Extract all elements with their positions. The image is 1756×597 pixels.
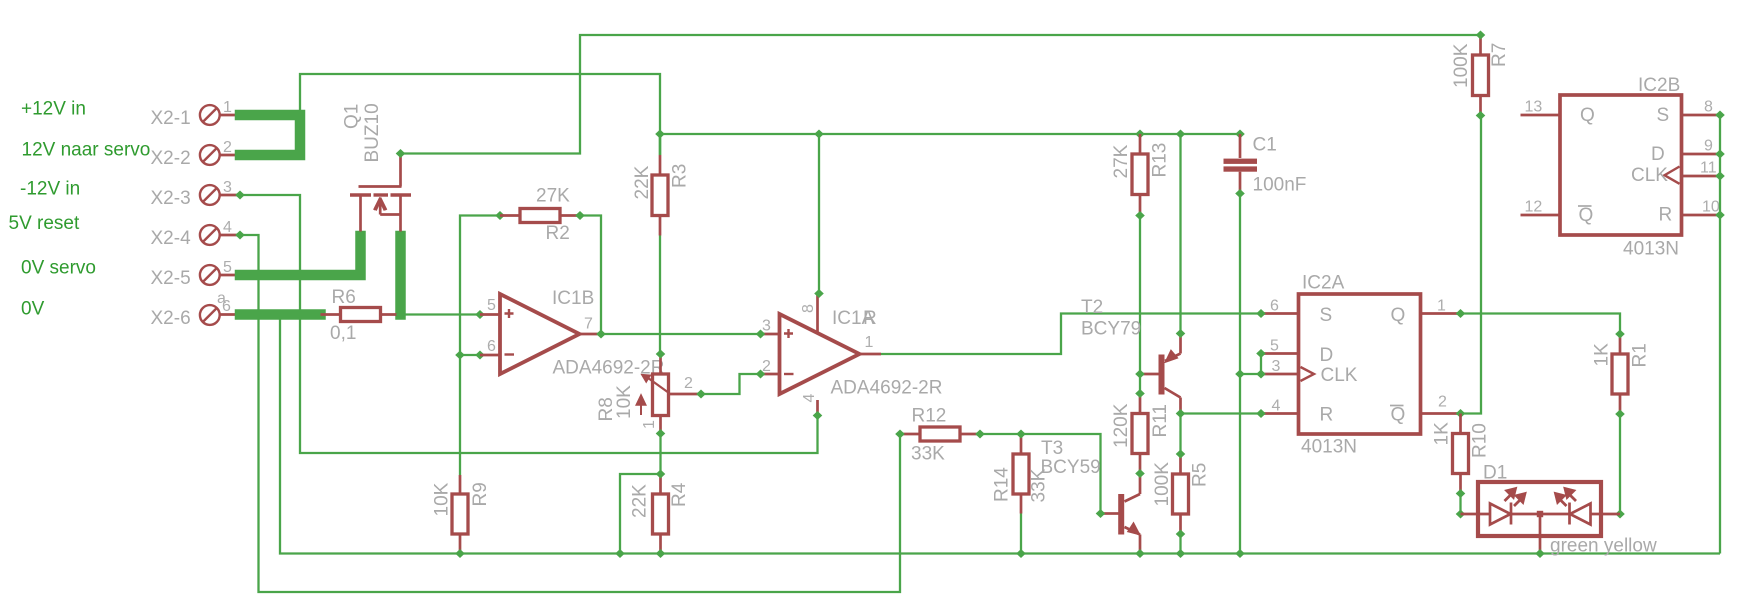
junction R4 bottom on 0V bus xyxy=(656,549,666,558)
svg-text:1: 1 xyxy=(865,334,874,351)
wire net +12V bus xyxy=(660,133,1240,135)
wire net R12 right to T3 base xyxy=(980,434,1104,514)
junction bypass on 0V bus xyxy=(615,549,625,558)
junction R5 top xyxy=(1176,450,1186,459)
svg-text:C1: C1 xyxy=(1253,135,1277,156)
wire net 0V bus from X2-6 down and along bottom xyxy=(280,310,1720,554)
svg-text:green yellow: green yellow xyxy=(1550,536,1657,557)
svg-text:BCY79: BCY79 xyxy=(1081,319,1141,340)
wire net IC1B out to IC1A pin3 xyxy=(601,333,761,335)
pin name Qbar xyxy=(1578,205,1593,226)
junction IC2A pin4 xyxy=(1256,409,1266,418)
svg-text:Q: Q xyxy=(1391,305,1406,326)
junction R2 right pin xyxy=(575,211,585,220)
svg-text:2: 2 xyxy=(223,139,232,156)
svg-text:3: 3 xyxy=(762,318,771,335)
svg-text:R: R xyxy=(1659,205,1673,226)
junction IC1A pin4 xyxy=(813,411,823,420)
svg-text:D1: D1 xyxy=(1483,463,1507,484)
resistor R12 xyxy=(900,427,980,441)
junction C1 net on 0V bus xyxy=(1235,549,1245,558)
resistor R14 xyxy=(1013,434,1029,514)
svg-text:R14: R14 xyxy=(992,467,1013,502)
transistor T2 (BCY79 PNP) xyxy=(1142,334,1181,414)
svg-text:13: 13 xyxy=(1525,99,1543,116)
svg-text:5: 5 xyxy=(223,259,232,276)
junction R11 top xyxy=(1135,389,1145,398)
svg-text:R13: R13 xyxy=(1150,143,1171,178)
svg-text:D: D xyxy=(1320,345,1334,366)
junction IC1B pin5 xyxy=(475,310,485,319)
resistor R6 xyxy=(321,308,401,322)
wire net R3 bottom to trimmer R8 top xyxy=(659,236,661,355)
terminal X2-3 xyxy=(200,185,240,205)
wire net IC2B unused pins tie to 0V xyxy=(1719,115,1721,554)
junction bus at IC1A pin8 branch xyxy=(814,130,824,139)
wire thick X2-5 to Q1 source xyxy=(240,236,361,275)
junction IC2B pin11 xyxy=(1715,172,1725,181)
svg-text:7: 7 xyxy=(584,316,593,333)
svg-text:3: 3 xyxy=(223,179,232,196)
svg-text:R5: R5 xyxy=(1190,463,1211,487)
svg-text:9: 9 xyxy=(1704,138,1713,155)
svg-text:R3: R3 xyxy=(670,164,691,188)
svg-text:ADA4692-2R: ADA4692-2R xyxy=(831,378,943,399)
svg-text:5: 5 xyxy=(1270,338,1279,355)
junction R7 bottom xyxy=(1476,111,1486,120)
svg-text:T2: T2 xyxy=(1081,297,1103,318)
svg-text:100nF: 100nF xyxy=(1253,175,1307,196)
resistor R10 xyxy=(1453,414,1469,494)
svg-text:0,1: 0,1 xyxy=(330,323,356,344)
wire net T2 emitter to +12V bus xyxy=(1179,134,1181,334)
svg-text:6: 6 xyxy=(487,338,496,355)
svg-text:R10: R10 xyxy=(1470,423,1491,458)
junction IC1A pin3 xyxy=(756,330,766,339)
svg-text:1K: 1K xyxy=(1432,422,1453,446)
svg-text:CLK: CLK xyxy=(1321,365,1358,386)
op-amp IC1B xyxy=(480,294,601,374)
svg-text:22K: 22K xyxy=(630,484,651,518)
svg-text:Q: Q xyxy=(1580,105,1595,126)
junction IC2A pin1 xyxy=(1456,309,1466,318)
junction X2-3 pin xyxy=(235,191,245,200)
wire net Q1 gate to R7 top xyxy=(401,35,1481,154)
junction IC2B pin9 xyxy=(1715,150,1725,159)
terminal X2-2 xyxy=(200,145,238,165)
svg-text:R: R xyxy=(1320,405,1334,426)
svg-text:12: 12 xyxy=(1525,199,1543,216)
terminal X2-5 xyxy=(200,265,238,285)
svg-text:R11: R11 xyxy=(1150,404,1171,437)
junction D1 common on 0V bus xyxy=(1535,549,1545,558)
svg-text:Q1: Q1 xyxy=(342,104,363,129)
junction pin6 pin xyxy=(475,351,485,360)
trimmer R8 xyxy=(637,354,701,434)
wire net IC1B pin6 stub xyxy=(460,354,480,356)
svg-text:100K: 100K xyxy=(1152,462,1173,507)
junction R9 bottom on 0V bus xyxy=(455,549,465,558)
svg-text:Q: Q xyxy=(1579,205,1594,226)
svg-text:X2-6: X2-6 xyxy=(151,308,191,329)
junction T3 base xyxy=(1096,509,1106,518)
svg-text:X2-5: X2-5 xyxy=(151,268,191,289)
wire net R13 bottom to T2 base and R11 xyxy=(1139,216,1141,394)
transistor T3 (BCY59 NPN) xyxy=(1103,474,1140,554)
svg-text:X2-1: X2-1 xyxy=(151,108,191,129)
terminal X2-4 xyxy=(200,225,240,245)
svg-text:1: 1 xyxy=(641,420,658,429)
resistor R4 xyxy=(653,474,669,554)
svg-text:T3: T3 xyxy=(1041,438,1063,459)
junction R3 top on +12V bus xyxy=(655,130,665,139)
pin name Qbar xyxy=(1390,405,1405,426)
junction bus at R13 xyxy=(1135,130,1145,139)
svg-text:4: 4 xyxy=(801,394,818,403)
junction Q1 gate node xyxy=(396,149,406,158)
resistor R1 xyxy=(1612,334,1628,414)
junction C1 bottom xyxy=(1235,189,1245,198)
junction R2 left pin xyxy=(495,211,505,220)
wire net R6 to IC1B pin5 xyxy=(401,313,481,315)
resistor R5 xyxy=(1173,454,1189,534)
wire net T2 collector to IC2A pin4 xyxy=(1181,412,1262,414)
svg-text:1: 1 xyxy=(223,99,232,116)
junction R5 bottom xyxy=(1176,530,1186,539)
junction T2 collector xyxy=(1176,409,1186,418)
junction R10 bottom xyxy=(1456,489,1466,498)
svg-text:X2-2: X2-2 xyxy=(151,148,191,169)
svg-text:22K: 22K xyxy=(632,165,653,199)
svg-text:12V naar servo: 12V naar servo xyxy=(22,139,151,160)
junction IC2A pin2 xyxy=(1456,409,1466,418)
wire net R10 bottom to D1 xyxy=(1459,494,1461,515)
resistor R9 xyxy=(452,475,468,554)
svg-text:27K: 27K xyxy=(1111,144,1132,178)
junction R14 top xyxy=(1016,430,1026,439)
svg-text:R4: R4 xyxy=(669,482,690,507)
svg-text:X2-3: X2-3 xyxy=(151,188,191,209)
wire thick jumper X2-1 to X2-2 xyxy=(240,115,300,155)
wire net IC2A Qbar to R7 xyxy=(1461,116,1482,414)
svg-text:IC2B: IC2B xyxy=(1638,75,1680,96)
svg-text:+12V in: +12V in xyxy=(21,99,86,120)
junction IC1A pin2 xyxy=(756,370,766,379)
wire net R1 bottom to D1 right xyxy=(1619,414,1621,514)
svg-text:4: 4 xyxy=(223,219,232,236)
wire net R14 bottom to 0V bus xyxy=(1020,514,1022,554)
svg-text:0V: 0V xyxy=(21,299,45,320)
wire net IC2A Q to R1 xyxy=(1461,314,1621,335)
svg-text:BUZ10: BUZ10 xyxy=(362,103,383,162)
svg-text:R6: R6 xyxy=(332,287,356,308)
svg-text:R7: R7 xyxy=(1489,43,1510,67)
svg-text:R12: R12 xyxy=(912,406,947,427)
flip-flop IC2B (4013N) xyxy=(1521,95,1721,235)
resistor R11 xyxy=(1132,394,1148,474)
wire net R8 wiper to IC1A pin2 xyxy=(701,374,761,394)
junction D1 left pin xyxy=(1456,510,1466,519)
wire net T2 collector down to R5 xyxy=(1179,414,1181,455)
svg-text:D: D xyxy=(1651,144,1665,165)
wire net X2-4 (5V reset) down along bottom to R12 xyxy=(240,235,900,592)
junction CLK branch xyxy=(1235,370,1245,379)
svg-text:10K: 10K xyxy=(614,385,635,419)
svg-text:10K: 10K xyxy=(432,482,453,516)
resistor R2 xyxy=(500,209,580,223)
junction R4 top xyxy=(656,470,666,479)
svg-text:100K: 100K xyxy=(1451,43,1472,88)
svg-text:Q: Q xyxy=(1391,405,1406,426)
op-amp IC1A xyxy=(761,294,882,416)
resistor R3 xyxy=(652,134,668,236)
svg-text:33K: 33K xyxy=(911,444,945,465)
LED D1 (dual green/yellow) xyxy=(1461,482,1621,554)
junction IC2B pin8 xyxy=(1715,111,1725,120)
svg-text:10: 10 xyxy=(1702,199,1720,216)
wire net R5 bottom to 0V bus xyxy=(1179,534,1181,554)
svg-text:6: 6 xyxy=(1270,298,1279,315)
svg-text:IC1B: IC1B xyxy=(552,288,594,309)
wire net R2 left / IC1B pin6 / R9 vertical xyxy=(460,216,500,476)
wire net IC1A output to IC2A pin6 xyxy=(881,314,1261,355)
svg-text:4013N: 4013N xyxy=(1623,239,1679,260)
wire thick X2-6 to R6 xyxy=(240,309,321,320)
svg-text:1: 1 xyxy=(1437,298,1446,315)
resistor R7 xyxy=(1473,35,1489,116)
svg-text:IC2A: IC2A xyxy=(1302,273,1345,294)
junction R13 bottom xyxy=(1135,211,1145,220)
wire net +12V from jumper up and over to bus xyxy=(300,74,660,134)
svg-text:8: 8 xyxy=(800,304,817,313)
svg-text:CLK: CLK xyxy=(1631,165,1668,186)
junction pin6 wire xyxy=(455,351,465,360)
junction IC2A pin3 xyxy=(1256,370,1266,379)
svg-text:S: S xyxy=(1657,105,1670,126)
svg-text:R: R xyxy=(863,308,877,329)
svg-text:8: 8 xyxy=(1704,99,1713,116)
junction IC1B output xyxy=(596,330,606,339)
svg-text:BCY59: BCY59 xyxy=(1041,457,1101,478)
capacitor C1 xyxy=(1224,134,1258,194)
junction IC1A pin8 xyxy=(814,289,824,298)
svg-text:0V servo: 0V servo xyxy=(21,257,96,278)
svg-text:R9: R9 xyxy=(470,482,491,506)
svg-text:R2: R2 xyxy=(546,223,570,244)
wire net R8 bottom to R4 top xyxy=(659,434,661,475)
junction R14 bottom on 0V bus xyxy=(1016,549,1026,558)
junction IC2A pin5 xyxy=(1256,349,1266,358)
junction D1 right pin xyxy=(1615,510,1625,519)
flip-flop IC2A (4013N) xyxy=(1261,294,1461,434)
svg-text:3: 3 xyxy=(1272,358,1281,375)
svg-text:S: S xyxy=(1320,305,1333,326)
junction R12 right pin xyxy=(975,430,985,439)
junction R8 top pin xyxy=(656,350,666,359)
junction bus at T2 emitter branch xyxy=(1176,130,1186,139)
junction R11 bottom xyxy=(1135,469,1145,478)
junction bus at C1 xyxy=(1235,130,1245,139)
junction R12 left pin xyxy=(895,430,905,439)
svg-text:R1: R1 xyxy=(1630,343,1651,367)
svg-text:5: 5 xyxy=(487,297,496,314)
junction T3 emitter on 0V bus xyxy=(1135,549,1145,558)
junction R1 bottom xyxy=(1615,410,1625,419)
junction T2 emitter xyxy=(1176,329,1186,338)
wire thick Q1 drain bar to R6 right node xyxy=(395,236,406,315)
junction R8 wiper pin xyxy=(696,390,706,399)
junction IC2A pin6 xyxy=(1256,309,1266,318)
junction X2-4 pin xyxy=(235,231,245,240)
svg-text:-12V in: -12V in xyxy=(20,179,80,200)
wire net X2-3 (-12V) right, down and along to IC1A pin4 xyxy=(240,195,818,453)
svg-text:27K: 27K xyxy=(536,186,570,207)
svg-text:1K: 1K xyxy=(1592,343,1613,367)
svg-text:4013N: 4013N xyxy=(1301,437,1357,458)
junction IC2B pin10 xyxy=(1715,211,1725,220)
terminal X2-6 xyxy=(200,305,238,325)
junction T2 base xyxy=(1135,370,1145,379)
wire net IC1A pin8 to +12V bus xyxy=(818,134,820,294)
terminal X2-1 xyxy=(200,105,238,125)
junction R8 bottom pin xyxy=(656,429,666,438)
svg-text:6: 6 xyxy=(222,298,231,315)
svg-text:5V reset: 5V reset xyxy=(9,213,80,234)
svg-text:4: 4 xyxy=(1272,398,1281,415)
svg-text:2: 2 xyxy=(684,375,693,392)
junction R6 right / Q1 source node xyxy=(396,310,406,319)
wire net CLK branch to C1 net xyxy=(1240,373,1261,375)
transistor Q1 (BUZ10 MOSFET) xyxy=(350,155,411,232)
svg-text:11: 11 xyxy=(1700,160,1717,177)
svg-text:120K: 120K xyxy=(1111,403,1132,448)
resistor R13 xyxy=(1132,134,1148,216)
svg-text:X2-4: X2-4 xyxy=(151,228,192,249)
wire net D-CLK tie xyxy=(1260,354,1262,375)
svg-text:2: 2 xyxy=(1438,394,1447,411)
wire net R4 top bypass to 0V bus xyxy=(620,474,661,554)
wire net C1 bottom to IC2A CLK and 0V bus xyxy=(1239,194,1241,554)
junction R7 top xyxy=(1476,31,1486,40)
wire net R2 right to IC1B output xyxy=(580,216,601,335)
junction R5 on 0V bus xyxy=(1176,549,1186,558)
junction R1 top xyxy=(1615,330,1625,339)
